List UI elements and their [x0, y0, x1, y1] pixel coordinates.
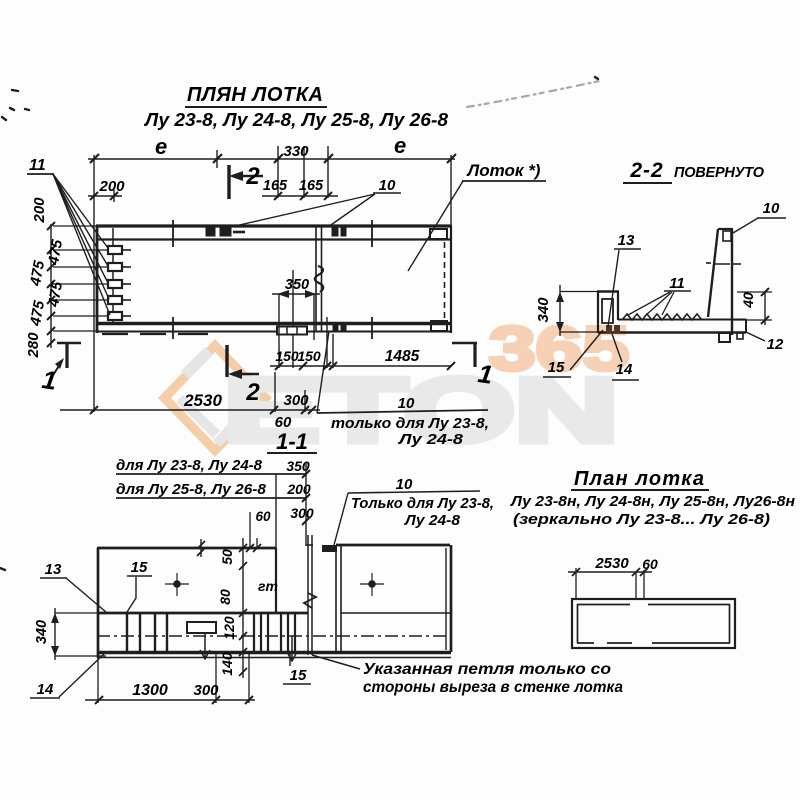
section mark 1 right	[452, 343, 477, 367]
svg-text:гт: гт	[258, 578, 278, 594]
svg-text:300: 300	[290, 505, 314, 521]
leader fan for 11	[53, 174, 110, 315]
plan joint break squiggle	[315, 266, 324, 292]
60 extensions	[249, 512, 251, 548]
svg-text:ПЛЯН ЛОТКА: ПЛЯН ЛОТКА	[187, 84, 325, 106]
svg-text:165: 165	[263, 178, 288, 194]
svg-text:200: 200	[286, 481, 311, 497]
svg-text:Лу 24-8: Лу 24-8	[398, 431, 464, 448]
wall section left	[597, 291, 619, 333]
opening rect in base	[187, 622, 216, 633]
plan inner left wall line	[112, 228, 114, 324]
svg-text:40: 40	[740, 292, 756, 309]
svg-text:1485: 1485	[385, 348, 420, 365]
2530 dim line	[60, 409, 320, 411]
plan left edge	[96, 225, 99, 333]
svg-text:475: 475	[45, 280, 66, 309]
svg-text:60: 60	[642, 556, 658, 572]
side loops (5) on left inner wall	[108, 246, 122, 320]
plan bottom inner edge	[96, 322, 451, 326]
svg-text:15: 15	[548, 359, 565, 376]
svg-text:2: 2	[245, 379, 260, 406]
plan tick x173 top	[172, 220, 174, 247]
svg-text:200: 200	[31, 197, 48, 224]
section mark 1 left	[50, 343, 81, 380]
base slab	[598, 319, 746, 333]
svg-text:Указанная петля только со: Указанная петля только со	[363, 661, 611, 678]
plan right edge	[450, 225, 452, 333]
dim slash ticks top line	[90, 154, 456, 163]
svg-text:340: 340	[34, 620, 50, 644]
section mark 2 top	[229, 165, 263, 199]
svg-text:1: 1	[40, 364, 59, 396]
svg-text:ПОВЕРНУТО: ПОВЕРНУТО	[674, 165, 765, 181]
corner plate bottom right	[431, 321, 447, 331]
svg-text:14: 14	[616, 361, 633, 378]
svg-text:280: 280	[25, 332, 42, 359]
feet under base	[719, 333, 730, 342]
svg-text:475: 475	[27, 299, 48, 328]
loop extension lines to chain	[53, 226, 107, 331]
svg-text:15: 15	[290, 667, 307, 684]
svg-text:10: 10	[379, 177, 396, 194]
165 165 dim line	[262, 195, 338, 197]
svg-text:Лоток *): Лоток *)	[466, 161, 541, 180]
svg-text:(зеркально Лу 23-8... Лу 26-8): (зеркально Лу 23-8... Лу 26-8)	[513, 512, 770, 528]
svg-text:165: 165	[299, 178, 324, 194]
svg-text:11: 11	[29, 157, 46, 174]
200 dim	[88, 190, 122, 202]
small plan rect	[572, 599, 735, 648]
svg-text:2530: 2530	[183, 391, 222, 410]
right hatch group	[254, 613, 295, 652]
plan mid extension vertical	[292, 270, 294, 368]
watermark logo diamond	[158, 339, 272, 457]
svg-text:150: 150	[297, 348, 321, 364]
note Указанная петля	[312, 655, 360, 669]
svg-text:150: 150	[275, 348, 299, 364]
svg-text:330: 330	[283, 143, 309, 160]
target symbol left	[165, 573, 189, 596]
plan dashed inner right line	[444, 242, 446, 318]
svg-text:2: 2	[245, 163, 260, 190]
150 150 1485 dim line below plan	[270, 365, 451, 367]
plan tick x372 top	[371, 220, 373, 247]
bottom plate with gaps near 350 dim	[277, 327, 307, 335]
plan tick x372 bottom	[371, 317, 373, 339]
rotated chain dims 50 80 120 140	[242, 538, 244, 678]
svg-text:Лу 23-8, Лу 24-8, Лу 25-8, Лу: Лу 23-8, Лу 24-8, Лу 25-8, Лу 26-8	[143, 110, 448, 130]
svg-text:2530: 2530	[594, 555, 629, 572]
svg-text:200: 200	[98, 178, 125, 195]
svg-text:120: 120	[221, 616, 237, 640]
plan top outer edge	[96, 224, 451, 227]
target symbol right	[360, 573, 384, 596]
svg-text:Только для Лу 23-8,: Только для Лу 23-8,	[351, 495, 494, 512]
plan top inner edge	[96, 238, 451, 240]
label 15 bottom	[289, 653, 291, 666]
bottom plate band	[102, 333, 208, 335]
plan bottom outer edge	[97, 330, 451, 332]
anchor squares (overlapped by watermark)	[606, 325, 612, 333]
plan joint verticals	[315, 226, 317, 331]
svg-text:15: 15	[131, 559, 148, 576]
svg-text:только для Лу 23-8,: только для Лу 23-8,	[331, 415, 489, 432]
svg-text:300: 300	[283, 392, 309, 409]
stray specks top-left	[0, 77, 598, 570]
svg-text:12: 12	[767, 336, 784, 353]
svg-text:13: 13	[618, 232, 635, 249]
svg-text:Лу 24-8: Лу 24-8	[404, 512, 461, 529]
left dim chain vertical	[50, 224, 52, 348]
view outline	[97, 474, 451, 703]
section mark 2 bottom	[227, 345, 259, 377]
plan tick x173 bottom	[172, 317, 174, 339]
svg-text:e: e	[155, 134, 167, 159]
corner plate top right	[430, 229, 447, 239]
svg-text:стороны выреза в стенке лотка: стороны выреза в стенке лотка	[363, 679, 623, 696]
svg-text:1300: 1300	[132, 682, 168, 699]
svg-text:10: 10	[398, 395, 415, 412]
svg-text:Лу 23-8н, Лу 24-8н, Лу 25-8н,: Лу 23-8н, Лу 24-8н, Лу 25-8н, Лу26-8н	[510, 494, 795, 510]
top dimension line	[88, 146, 455, 412]
svg-text:11: 11	[669, 275, 685, 292]
svg-text:475: 475	[27, 259, 48, 288]
svg-text:60: 60	[255, 509, 271, 524]
svg-text:для Лу 23-8, Лу 24-8: для Лу 23-8, Лу 24-8	[116, 457, 263, 474]
left hatch group	[127, 613, 167, 652]
chimney item 10	[706, 229, 741, 335]
loop plates on bottom edge	[333, 323, 338, 330]
chain slash ticks	[47, 222, 55, 347]
svg-text:50: 50	[219, 549, 235, 565]
svg-text:80: 80	[217, 589, 233, 605]
top bar plate left of joint	[322, 545, 337, 552]
svg-text:10: 10	[763, 200, 780, 217]
svg-text:10: 10	[396, 476, 413, 493]
hatch loops on base top	[622, 314, 702, 320]
svg-text:140: 140	[219, 652, 235, 676]
loop plates on top edge	[206, 228, 346, 330]
svg-text:14: 14	[37, 681, 54, 698]
svg-text:1-1: 1-1	[276, 429, 308, 454]
svg-text:13: 13	[45, 561, 62, 578]
svg-text:План лотка: План лотка	[574, 468, 706, 490]
svg-text:340: 340	[535, 297, 552, 323]
svg-text:для Лу 25-8, Лу 26-8: для Лу 25-8, Лу 26-8	[116, 481, 267, 498]
svg-text:300: 300	[193, 682, 219, 699]
down arrows	[200, 634, 297, 661]
svg-text:e: e	[394, 133, 406, 158]
1300 300 dim	[85, 699, 255, 701]
tick line x201	[200, 539, 202, 557]
title ghost streak	[467, 80, 604, 107]
svg-text:2-2: 2-2	[629, 159, 663, 182]
